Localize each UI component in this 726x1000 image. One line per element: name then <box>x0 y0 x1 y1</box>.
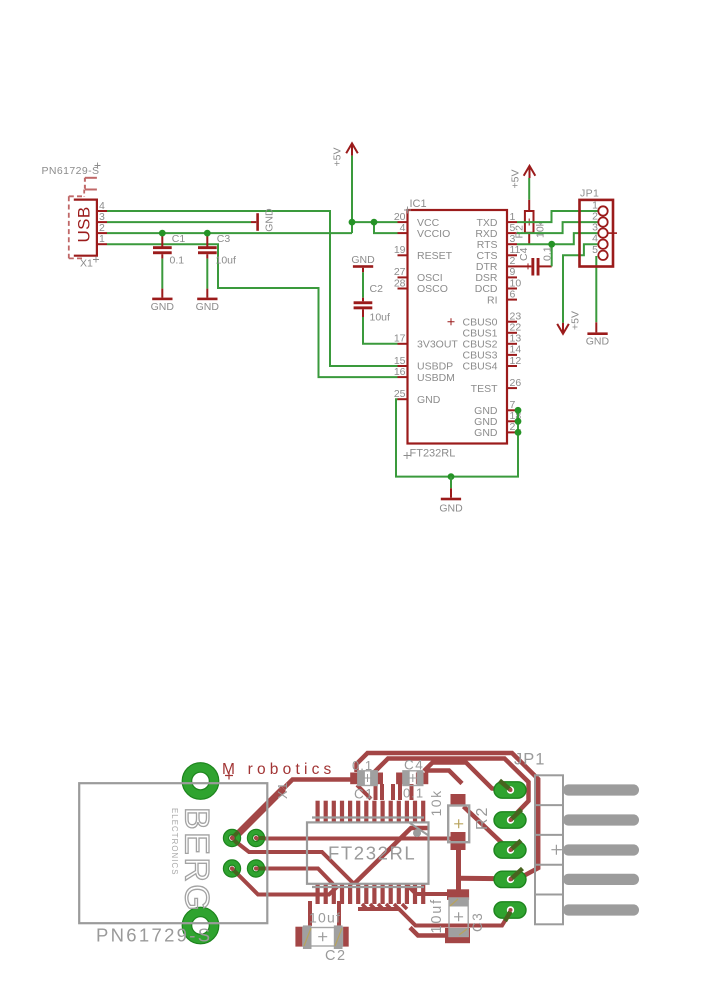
X1 pin 2 <box>97 222 107 234</box>
wire USBDP net from X1 pin4 <box>107 211 398 366</box>
capacitor C1 0.1 <box>153 233 185 267</box>
X1 pin 4 <box>97 200 107 212</box>
wire to VCC pin20 <box>352 221 398 223</box>
+5V power symbol (top) <box>332 143 358 166</box>
svg-text:GND: GND <box>417 394 441 406</box>
svg-text:C2: C2 <box>325 948 347 964</box>
trace USB pad2 to R2 bottom <box>256 837 451 841</box>
X1 pin 3 <box>97 211 107 223</box>
IC1 pin 9 DSR <box>475 266 517 284</box>
+5V power symbol (down arrow) <box>557 311 581 334</box>
trace C3/R2 to JP1 pad4 <box>459 876 510 882</box>
IC1 pin 28 OSCO <box>394 277 448 295</box>
PCB USB pin pad 1 <box>223 829 240 846</box>
svg-text:19: 19 <box>394 244 406 256</box>
svg-text:4: 4 <box>400 222 406 234</box>
svg-text:BERG: BERG <box>178 807 216 913</box>
svg-text:VCCIO: VCCIO <box>417 228 450 240</box>
PCB C4 pads <box>396 773 428 785</box>
trace IC pads to bus diagonals <box>362 904 407 909</box>
svg-text:PN61729-S: PN61729-S <box>42 165 100 177</box>
trace bottom bus <box>358 909 511 926</box>
svg-text:12: 12 <box>510 355 522 367</box>
wire RXD to JP1 pin2 <box>517 222 598 233</box>
PCB text X1 rotated <box>276 782 290 799</box>
svg-text:C2: C2 <box>370 283 384 295</box>
ground GND at X1 pin3 (rotated) <box>251 208 276 232</box>
wire to VCCIO pin4 <box>374 222 398 233</box>
PCB text PN61729-S <box>96 925 212 946</box>
wire GND bus from pin25 <box>396 399 518 476</box>
svg-text:17: 17 <box>394 333 406 345</box>
capacitor C4 0.1 <box>517 246 554 275</box>
PCB IC1 footprint pads top <box>316 801 426 823</box>
ground GND under JP1 pin5 <box>586 322 610 347</box>
resistor R2 10k <box>514 200 547 244</box>
PCB USB pin pad 4 <box>247 860 264 877</box>
svg-text:RESET: RESET <box>417 250 453 262</box>
svg-text:GND: GND <box>351 254 375 266</box>
svg-text:C4: C4 <box>404 758 424 773</box>
svg-text:C3: C3 <box>470 912 485 932</box>
svg-text:CBUS4: CBUS4 <box>462 361 497 373</box>
IC1 pin 3 RTS <box>477 233 517 251</box>
IC1 pin 18 GND <box>474 410 521 428</box>
svg-text:C3: C3 <box>217 233 231 245</box>
IC1 pin 21 GND <box>474 421 521 439</box>
junction <box>515 407 522 414</box>
trace VBUS from USB pad1 to C1 <box>233 780 352 840</box>
PCB capacitor C4 silkscreen <box>403 758 424 801</box>
capacitor C3 10uf <box>198 233 236 267</box>
connector JP1 header <box>580 187 618 266</box>
PCB text M robotics <box>222 761 336 780</box>
wire +5V to JP1 pin4 <box>563 244 598 323</box>
trace C1 pads down <box>357 784 382 800</box>
wire C1 to GND <box>161 259 163 289</box>
IC1 pin 12 CBUS4 <box>462 355 521 373</box>
svg-text:0.1: 0.1 <box>352 758 373 773</box>
wire GND to C2 <box>362 272 364 297</box>
connector X1 USB PN61729-S symbol <box>69 178 97 259</box>
PCB JP1 pad 2 <box>494 812 526 828</box>
PCB USB mounting hole top <box>182 763 219 800</box>
svg-text:0.1: 0.1 <box>170 255 185 267</box>
svg-text:10k: 10k <box>428 789 444 816</box>
svg-text:10uf: 10uf <box>370 312 391 324</box>
wire C4 to RTS net <box>551 244 553 266</box>
PCB JP1 pin 1 <box>563 784 639 795</box>
svg-text:GND: GND <box>474 427 498 439</box>
trace USB pad3 row <box>232 869 338 895</box>
X1 pin 1 <box>97 233 107 245</box>
svg-text:GND: GND <box>264 208 276 232</box>
IC1 pin 1 TXD <box>477 211 518 229</box>
trace USB pad1 row <box>233 840 354 885</box>
svg-text:M robotics: M robotics <box>222 761 336 778</box>
svg-text:GND: GND <box>439 503 463 515</box>
svg-text:RI: RI <box>487 294 498 306</box>
PCB JP1 pin 5 <box>563 904 639 915</box>
junction <box>448 473 455 480</box>
svg-text:JP1: JP1 <box>580 187 599 199</box>
svg-text:GND: GND <box>151 301 175 313</box>
IC1 pin 7 GND <box>474 399 517 417</box>
ground GND under C1 <box>151 289 175 313</box>
svg-text:5: 5 <box>592 244 598 256</box>
svg-text:FT232RL: FT232RL <box>410 448 456 460</box>
PCB text ELECTRONICS <box>170 808 179 876</box>
svg-text:10uf: 10uf <box>216 255 237 267</box>
trace C4 to R2 <box>425 771 462 784</box>
PCB IC1 silkscreen <box>307 818 429 888</box>
wire TXD to JP1 pin1 <box>517 211 598 222</box>
junction <box>548 241 555 248</box>
trace diagonal inside IC1 <box>355 828 428 883</box>
svg-text:R2: R2 <box>514 225 526 239</box>
PCB JP1 pin 2 <box>563 814 639 825</box>
svg-text:10uf: 10uf <box>429 898 445 933</box>
IC1 pin 16 USBDM <box>394 366 455 384</box>
svg-text:0.1: 0.1 <box>403 786 424 801</box>
junction <box>204 230 211 237</box>
IC1 pin 14 CBUS3 <box>462 344 521 362</box>
svg-text:R2: R2 <box>474 806 491 830</box>
IC1 pin 20 VCC <box>394 211 440 229</box>
PCB JP1 pad 3 <box>494 842 526 858</box>
IC U1 FT232RL body <box>404 198 508 460</box>
wire C2 to 3V3OUT pin17 <box>363 317 398 344</box>
IC1 pin 6 RI <box>487 288 517 306</box>
svg-text:USB: USB <box>74 206 93 242</box>
svg-text:+5V: +5V <box>510 170 522 189</box>
PCB USB mounting hole bottom <box>182 907 219 944</box>
svg-text:6: 6 <box>510 288 516 300</box>
svg-text:1: 1 <box>99 233 105 245</box>
svg-text:X1: X1 <box>80 258 93 270</box>
PCB C1 pads <box>350 773 383 785</box>
trace C3 top pad to IC pads <box>407 885 447 894</box>
IC1 pin 19 RESET <box>394 244 453 262</box>
PCB JP1 pad 4 <box>494 871 526 887</box>
trace stub on JP1 pad4 <box>511 869 523 880</box>
trace bundle inner to JP1 pad1 <box>424 763 510 791</box>
IC1 pin 17 3V3OUT <box>394 333 459 351</box>
ground GND under IC1 <box>439 477 463 515</box>
wire +5V net from X1 pin2 <box>107 232 352 234</box>
PCB text BERG <box>178 807 216 913</box>
junction <box>371 219 378 226</box>
PCB JP1 pad 5 <box>494 902 526 918</box>
PCB JP1 pin 3 <box>563 844 639 855</box>
svg-text:C4: C4 <box>518 247 530 261</box>
IC1 pin 2 DTR <box>476 255 517 273</box>
IC1 pin 4 VCCIO <box>398 222 451 240</box>
PCB capacitor C1 silkscreen <box>352 758 377 802</box>
PCB C2 pads <box>295 927 348 947</box>
IC1 pin 27 OSCI <box>394 266 443 284</box>
trace bundle middle to JP1 pad2 <box>375 759 529 820</box>
wire +5V vertical <box>351 156 353 234</box>
PCB USB pin pad 3 <box>223 860 240 877</box>
IC1 pin 26 TEST <box>471 377 522 395</box>
svg-text:X1: X1 <box>276 782 290 799</box>
IC1 pin 10 DCD <box>475 277 522 295</box>
trace USB pad4 row <box>256 869 333 885</box>
+5V power symbol above R2 <box>510 166 536 189</box>
label X1 <box>80 257 99 270</box>
PCB JP1 header outline <box>535 775 563 924</box>
svg-text:GND: GND <box>586 336 610 348</box>
capacitor C2 10uf <box>354 283 390 324</box>
svg-text:3V3OUT: 3V3OUT <box>417 339 458 351</box>
trace bundle outer to JP1 pad4 <box>357 753 539 881</box>
svg-text:ELECTRONICS: ELECTRONICS <box>170 808 179 876</box>
svg-text:C1: C1 <box>172 233 186 245</box>
wire USBDM net from X1 pin1 <box>107 244 398 377</box>
svg-text:+5V: +5V <box>570 311 582 330</box>
svg-text:PN61729-S: PN61729-S <box>96 925 212 946</box>
trace R2 to C3 <box>456 849 461 891</box>
trace stub on JP1 pad3 <box>511 841 522 851</box>
PCB resistor R2 silkscreen <box>428 789 491 842</box>
svg-text:16: 16 <box>394 366 406 378</box>
svg-text:FT232RL: FT232RL <box>328 843 416 864</box>
IC1 pin 25 GND <box>394 388 441 406</box>
label PN61729-S <box>42 163 101 178</box>
svg-text:GND: GND <box>196 301 220 313</box>
wire X1 pin3 to GND <box>107 221 251 223</box>
ground GND under C3 <box>196 289 220 313</box>
trace C4 pads down <box>393 784 412 800</box>
IC1 pin 11 CTS <box>477 244 521 262</box>
IC1 pin 15 USBDP <box>394 355 453 373</box>
PCB JP1 origin cross <box>551 845 592 855</box>
svg-text:IC1: IC1 <box>410 198 427 210</box>
PCB C3 pads <box>445 889 470 943</box>
trace R2 to JP1 pad3 <box>464 807 511 851</box>
ground GND above C2 <box>351 254 375 272</box>
trace stub on JP1 pad5 <box>505 912 511 922</box>
IC1 pin 22 CBUS1 <box>462 322 521 340</box>
junction <box>515 429 522 436</box>
PCB capacitor C3 silkscreen <box>429 898 485 937</box>
trace stub on JP1 pad2 <box>511 810 522 821</box>
svg-text:10uf: 10uf <box>309 910 341 926</box>
svg-text:28: 28 <box>394 277 406 289</box>
trace C2 to IC pads <box>310 901 339 926</box>
junction <box>515 418 522 425</box>
junction <box>159 230 166 237</box>
svg-text:26: 26 <box>510 377 522 389</box>
wire RTS to JP1 pin3 <box>517 233 598 244</box>
wire C3 to GND <box>206 259 208 289</box>
svg-text:TEST: TEST <box>471 383 498 395</box>
svg-text:JP1: JP1 <box>514 751 545 769</box>
svg-text:+5V: +5V <box>332 148 344 167</box>
IC1 pin 13 CBUS2 <box>462 333 521 351</box>
svg-text:C1: C1 <box>354 787 374 802</box>
PCB text JP1 <box>514 751 545 769</box>
PCB capacitor C2 silkscreen <box>303 910 347 965</box>
PCB R2 pads <box>451 794 466 850</box>
wire +5V to R2 <box>528 178 530 200</box>
PCB IC1 footprint pads bottom <box>316 884 426 904</box>
trace C3 bottom to bus <box>410 928 447 936</box>
IC1 pin 5 RXD <box>475 222 517 240</box>
PCB JP1 pad 1 <box>494 782 526 798</box>
junction <box>349 219 356 226</box>
trace stub on JP1 pad1 <box>500 781 511 791</box>
svg-text:USBDM: USBDM <box>417 372 455 384</box>
JP1 pad hole marks <box>509 788 513 912</box>
PCB JP1 pin 4 <box>563 874 639 885</box>
PCB USB connector outline <box>79 783 267 923</box>
wire JP1 pin5 to GND <box>595 256 597 322</box>
IC1 pin 23 CBUS0 <box>462 311 521 329</box>
svg-text:OSCO: OSCO <box>417 283 448 295</box>
PCB USB pin pad 2 <box>247 829 264 846</box>
